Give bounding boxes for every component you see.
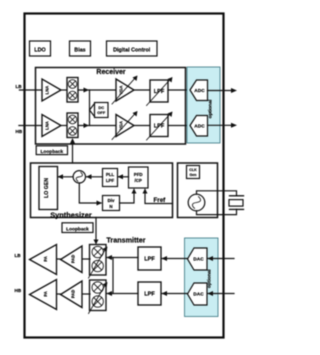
RX quadrature mixer M1 — [67, 78, 78, 103]
PAD driver 2 — [61, 281, 83, 308]
svg-text:Loopback: Loopback — [40, 149, 63, 155]
svg-text:ADC: ADC — [194, 124, 205, 130]
TX I input wire — [208, 256, 235, 261]
svg-text:Transmitter: Transmitter — [106, 236, 145, 245]
DCXO oscillator — [188, 194, 205, 211]
HB RX input wire — [19, 125, 42, 127]
chip boundary — [25, 14, 224, 338]
wire VGA2 to LPF2 — [134, 125, 150, 127]
svg-text:PFD: PFD — [134, 172, 143, 177]
Digital Control box — [107, 41, 158, 56]
svg-text:LDO: LDO — [34, 48, 45, 54]
wire mixer2 to VGA2 — [78, 125, 116, 127]
RX LPF2 box — [147, 112, 173, 141]
wire LPF1 to ADC1 — [168, 89, 190, 91]
wire Div N to PFD — [120, 189, 137, 204]
svg-text:LPF: LPF — [144, 292, 155, 298]
svg-text:/CP: /CP — [135, 178, 142, 183]
svg-text:HB: HB — [15, 288, 22, 293]
TX LPF2 box — [138, 282, 161, 305]
TX optional DAC block — [185, 238, 219, 317]
svg-text:PA: PA — [43, 256, 48, 262]
RX Q output arrow — [208, 123, 238, 128]
wire PFD to PLL LPF — [118, 174, 129, 179]
PA 2 — [30, 280, 57, 310]
clock block box — [178, 163, 218, 218]
svg-text:Synthesizer: Synthesizer — [50, 211, 92, 220]
wire VCO to Div N — [79, 183, 102, 206]
CLK Gen box — [187, 166, 200, 179]
svg-text:PA: PA — [43, 291, 48, 297]
RX LO wire — [70, 138, 75, 163]
svg-text:PLL: PLL — [106, 172, 115, 177]
svg-text:VGA: VGA — [119, 121, 124, 130]
VGA A2 — [112, 111, 138, 140]
DAC1 — [188, 248, 208, 270]
wire LPF1 to TX mixer1 — [107, 255, 139, 260]
svg-text:LNA: LNA — [45, 86, 50, 95]
crystal X1 — [229, 196, 244, 210]
LNA U2 (HB) — [42, 115, 61, 137]
wire PLL LPF to VCO — [86, 174, 103, 179]
svg-text:LPF: LPF — [106, 178, 115, 183]
PA 1 — [30, 245, 57, 275]
svg-text:DAC: DAC — [193, 292, 204, 298]
svg-text:OFF: OFF — [97, 110, 106, 115]
LNA U1 (LB) — [42, 79, 61, 101]
svg-text:N: N — [109, 204, 112, 209]
crystal X1 leads — [197, 191, 237, 215]
svg-text:Div: Div — [108, 198, 115, 203]
RX LPF1 box — [147, 77, 173, 106]
svg-text:Loopback: Loopback — [66, 226, 89, 232]
svg-text:Digital Control: Digital Control — [113, 48, 151, 54]
svg-text:LNA: LNA — [45, 121, 50, 130]
LB RX input wire — [20, 89, 43, 91]
PFD/CP box — [129, 167, 149, 188]
wire PAD2 to PA2 — [57, 293, 61, 295]
wire DAC1 to LPF1 — [162, 256, 188, 261]
TX quadrature mixer M4 — [89, 280, 108, 314]
wire TX mixer2 to PAD2 — [82, 293, 90, 295]
svg-text:CLK: CLK — [189, 168, 197, 172]
TX LO wire — [94, 218, 99, 245]
VGA A1 — [112, 76, 138, 105]
Fref wire — [143, 189, 173, 204]
wire VGA1 to LPF1 — [134, 89, 150, 91]
TX band-select cross wire — [112, 258, 114, 294]
PLL LPF box — [103, 169, 118, 187]
RX I output arrow — [208, 88, 238, 93]
receiver block box — [36, 68, 186, 145]
svg-text:Receiver: Receiver — [96, 69, 125, 76]
VCO — [73, 171, 85, 183]
svg-text:PAD: PAD — [71, 290, 76, 299]
DC OFF box — [90, 103, 109, 118]
TX Q input wire — [208, 291, 235, 296]
svg-text:LB: LB — [16, 84, 23, 89]
svg-text:optional: optional — [208, 100, 214, 119]
svg-text:PAD: PAD — [71, 255, 76, 264]
DAC2 — [188, 283, 208, 305]
svg-text:LB: LB — [15, 253, 22, 258]
svg-text:VGA: VGA — [119, 85, 124, 94]
ADC2 — [190, 116, 208, 137]
wire LNA2 to mixer2 — [61, 125, 67, 127]
wire VCO to LO GEN — [58, 174, 74, 179]
wire DAC2 to LPF2 — [162, 291, 188, 296]
Bias box — [70, 41, 91, 56]
svg-text:DAC: DAC — [193, 257, 204, 263]
RX optional ADC block — [187, 67, 220, 143]
TX loopback box — [62, 223, 93, 233]
svg-text:Gen: Gen — [190, 173, 197, 177]
DC offset junction wire — [89, 90, 91, 126]
wire mixer1 to VGA1 — [78, 89, 116, 91]
PAD driver 1 — [61, 246, 83, 273]
RX loopback box — [36, 146, 67, 155]
svg-text:LPF: LPF — [144, 257, 155, 263]
LDO box — [30, 41, 51, 56]
wire TX mixer1 to PAD1 — [82, 258, 90, 260]
Div N box — [103, 196, 120, 211]
wire LNA1 to mixer1 — [61, 89, 67, 91]
RX quadrature mixer M2 — [67, 113, 78, 138]
LO GEN box — [39, 167, 58, 210]
svg-text:ADC: ADC — [194, 88, 205, 94]
TX LPF1 box — [138, 247, 161, 270]
wire LPF2 to TX mixer2 — [107, 291, 139, 296]
svg-text:LO GEN: LO GEN — [44, 178, 50, 198]
svg-text:Bias: Bias — [74, 48, 85, 54]
wire LPF2 to ADC2 — [168, 125, 190, 127]
synthesizer box — [31, 163, 173, 220]
ADC1 — [190, 80, 208, 101]
svg-text:Fref: Fref — [154, 197, 167, 204]
svg-text:HB: HB — [16, 129, 23, 134]
TX quadrature mixer M3 — [89, 245, 108, 279]
wire PAD1 to PA1 — [57, 258, 61, 260]
